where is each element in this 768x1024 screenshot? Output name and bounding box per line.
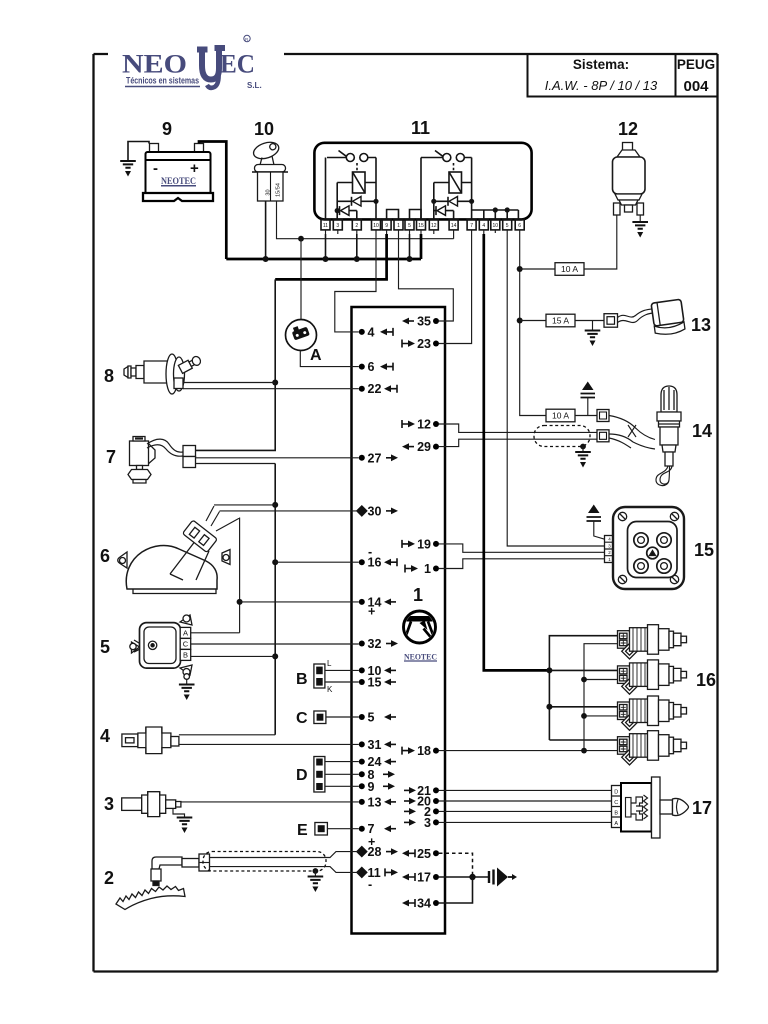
injector I1 xyxy=(618,625,687,659)
comp7 wires xyxy=(196,458,359,464)
pin 5 xyxy=(359,714,365,720)
K2 contact xyxy=(443,154,451,162)
main +12V bus xyxy=(226,234,421,262)
component 13 xyxy=(520,299,711,346)
wire pin18 xyxy=(439,750,584,752)
comp8 wires xyxy=(183,383,359,389)
relay K1 xyxy=(326,151,422,220)
pin 12 xyxy=(433,421,439,427)
cap symbol lambda xyxy=(582,382,594,391)
svg-text:-: - xyxy=(368,878,372,892)
switch collar xyxy=(255,165,286,173)
component 8 pressure regulator xyxy=(104,354,359,394)
svg-text:D: D xyxy=(296,767,308,784)
svg-text:C: C xyxy=(296,710,308,727)
comp3 ground xyxy=(173,808,185,817)
svg-text:1: 1 xyxy=(413,585,423,605)
pin 1 xyxy=(433,566,439,572)
comp5 ground xyxy=(184,674,190,680)
lambda body xyxy=(657,386,681,466)
svg-text:Sistema:: Sistema: xyxy=(573,57,629,72)
t11 drop xyxy=(325,234,327,259)
svg-text:5: 5 xyxy=(408,223,411,229)
svg-text:3: 3 xyxy=(336,223,339,229)
svg-text:29: 29 xyxy=(417,440,431,454)
svg-text:7: 7 xyxy=(106,447,116,467)
pin 8 xyxy=(359,771,365,777)
svg-text:-: - xyxy=(153,160,158,177)
component 2 crank sensor xyxy=(104,852,359,910)
K2 diode row2 xyxy=(434,211,454,219)
svg-text:15: 15 xyxy=(368,676,382,690)
comp2 shield dashed xyxy=(203,852,326,872)
injectors 16 xyxy=(439,234,716,753)
svg-text:10: 10 xyxy=(373,223,379,229)
wire A to pin 6 xyxy=(300,351,359,367)
wire to pin 14 xyxy=(240,601,359,603)
pin 2 xyxy=(433,808,439,814)
coil connector xyxy=(605,536,615,563)
pin 19 xyxy=(433,541,439,547)
svg-text:3: 3 xyxy=(104,794,114,814)
pin34 wire xyxy=(439,877,473,903)
K1 diode row2 xyxy=(337,211,357,219)
ignition coil 15 xyxy=(439,234,714,589)
lambda pigtail xyxy=(656,466,672,486)
svg-text:11: 11 xyxy=(323,223,328,229)
pin 4 xyxy=(359,329,365,335)
connector E xyxy=(297,822,359,839)
svg-text:Técnicos en sistemas: Técnicos en sistemas xyxy=(126,76,199,86)
svg-text:C: C xyxy=(183,640,189,649)
comp7 connector xyxy=(183,446,196,457)
wire 30 xyxy=(265,201,267,259)
diagnostic socket A xyxy=(286,239,359,367)
svg-text:11: 11 xyxy=(411,118,430,138)
comp3 wire to pin 13 xyxy=(181,801,359,803)
battery 9 xyxy=(120,119,226,259)
connector B xyxy=(296,659,359,694)
pin 20 xyxy=(433,798,439,804)
svg-text:4: 4 xyxy=(368,325,375,339)
component 5 MAP sensor xyxy=(100,615,359,700)
K1 output wire xyxy=(368,158,376,220)
pin 9 xyxy=(359,783,365,789)
svg-text:30: 30 xyxy=(368,504,382,518)
fuse 10A lambda xyxy=(546,409,575,422)
svg-text:25: 25 xyxy=(417,847,431,861)
svg-text:NEOTEC: NEOTEC xyxy=(161,176,196,186)
pin 34 xyxy=(433,900,439,906)
t2 drop xyxy=(356,234,358,259)
stepper body xyxy=(621,783,652,832)
pin 35 xyxy=(433,318,439,324)
switch body xyxy=(258,172,284,201)
svg-text:K: K xyxy=(327,685,333,694)
stepper wires xyxy=(439,790,612,822)
svg-text:3: 3 xyxy=(424,816,431,830)
cable13 xyxy=(618,309,656,323)
svg-text:15: 15 xyxy=(694,540,714,560)
svg-text:13: 13 xyxy=(691,315,711,335)
ground xyxy=(120,161,136,177)
svg-text:17: 17 xyxy=(417,871,431,885)
svg-text:15: 15 xyxy=(418,223,424,229)
svg-text:10: 10 xyxy=(493,223,499,229)
K2 diode row1 xyxy=(434,200,472,202)
svg-text:18: 18 xyxy=(417,744,431,758)
pin 7 xyxy=(359,826,365,832)
pin 15 xyxy=(359,679,365,685)
svg-text:12: 12 xyxy=(431,223,437,229)
svg-text:L: L xyxy=(327,659,332,668)
svg-text:NEO: NEO xyxy=(122,50,187,79)
pin 25 xyxy=(433,850,439,856)
K2 coil wires xyxy=(434,183,472,220)
wire pin1 to coil xyxy=(439,559,605,569)
body13 xyxy=(651,299,685,336)
shield lambda xyxy=(534,426,590,447)
terminal stubs xyxy=(326,230,520,234)
comp2 signal wires xyxy=(210,852,359,873)
battery base xyxy=(143,193,213,201)
svg-text:10 A: 10 A xyxy=(552,411,569,421)
svg-text:19: 19 xyxy=(417,537,431,551)
fuel pump 12 xyxy=(520,119,648,275)
pin 22 xyxy=(359,386,365,392)
svg-text:4: 4 xyxy=(482,223,485,229)
ECU NEOTEC emblem xyxy=(403,611,437,662)
border frame xyxy=(94,54,718,972)
component 6 throttle potentiometer xyxy=(100,505,359,633)
pin 14 xyxy=(359,599,365,605)
E wire xyxy=(327,828,358,830)
pin25 dashed wire xyxy=(439,853,473,874)
cap symbol coil xyxy=(588,505,600,514)
comp5 wire B xyxy=(191,655,276,657)
svg-text:5: 5 xyxy=(100,637,110,657)
svg-text:30: 30 xyxy=(266,189,272,195)
svg-text:B: B xyxy=(296,671,308,688)
svg-text:A: A xyxy=(183,629,188,638)
pin 24 xyxy=(359,759,365,765)
connector C xyxy=(296,710,359,727)
wire 15/54 xyxy=(277,201,454,239)
K1 diode row1 xyxy=(337,200,376,202)
svg-text:A: A xyxy=(614,821,618,827)
wire bus to pin 16 xyxy=(275,561,359,563)
fuse 10A pump xyxy=(520,268,555,270)
svg-text:6: 6 xyxy=(100,546,110,566)
comp5 wire C to pin 32 xyxy=(191,643,359,645)
pin 13 xyxy=(359,799,365,805)
svg-text:9: 9 xyxy=(162,119,172,139)
K2 coil xyxy=(449,172,462,193)
K1 bridge t9-t1 xyxy=(387,210,399,220)
K1 contact xyxy=(346,154,354,162)
pin 21 xyxy=(433,787,439,793)
svg-text:12: 12 xyxy=(417,418,431,432)
K2 feed wire xyxy=(421,158,443,220)
svg-text:23: 23 xyxy=(417,337,431,351)
svg-text:10: 10 xyxy=(254,119,274,139)
K2 output bus xyxy=(472,210,519,219)
svg-text:16: 16 xyxy=(696,670,716,690)
B wires xyxy=(325,670,359,682)
svg-text:+: + xyxy=(368,605,375,619)
ECU U1 box xyxy=(352,307,446,934)
svg-text:D: D xyxy=(614,790,618,796)
conn13 xyxy=(604,314,618,328)
injector I2 xyxy=(618,660,687,694)
C wire xyxy=(326,716,359,718)
conn13 ground xyxy=(592,321,594,331)
stepper pin column xyxy=(612,786,622,828)
svg-text:12: 12 xyxy=(618,119,638,139)
svg-text:5: 5 xyxy=(506,223,509,229)
pin 6 xyxy=(359,364,365,370)
idle stepper 17 xyxy=(439,777,712,838)
t5 drop xyxy=(409,234,411,259)
svg-text:35: 35 xyxy=(417,315,431,329)
pin 18 xyxy=(433,748,439,754)
svg-text:C: C xyxy=(614,800,618,806)
toothed wheel xyxy=(116,886,185,910)
svg-text:14: 14 xyxy=(692,421,712,441)
svg-text:32: 32 xyxy=(368,637,382,651)
svg-text:16: 16 xyxy=(368,556,382,570)
injector I3 xyxy=(618,696,687,730)
bridge t5-t15 xyxy=(410,210,422,220)
K1 coil wires xyxy=(337,183,376,220)
pin 10 xyxy=(359,667,365,673)
shield ground xyxy=(580,444,586,450)
svg-text:1: 1 xyxy=(424,562,431,576)
svg-text:28: 28 xyxy=(368,845,382,859)
battery body xyxy=(146,152,211,196)
svg-text:A: A xyxy=(310,347,322,364)
component 3 temp sensor xyxy=(104,792,359,833)
ECU right pins column xyxy=(402,315,439,911)
fuse 15A xyxy=(520,320,546,322)
svg-text:9: 9 xyxy=(385,223,388,229)
comp6 wires xyxy=(206,505,275,521)
svg-text:2: 2 xyxy=(104,868,114,888)
svg-text:14: 14 xyxy=(451,223,457,229)
pin 31 xyxy=(359,741,365,747)
svg-text:5: 5 xyxy=(368,711,375,725)
heater connector xyxy=(597,410,609,422)
svg-text:17: 17 xyxy=(692,798,712,818)
svg-text:6: 6 xyxy=(368,360,375,374)
comp2 shield ground xyxy=(313,868,319,874)
relay terminal row xyxy=(321,219,524,234)
svg-text:NEOTEC: NEOTEC xyxy=(404,652,437,662)
svg-text:10 A: 10 A xyxy=(561,264,578,274)
K2 output wire xyxy=(465,158,472,220)
pin 29 xyxy=(433,444,439,450)
injector bus1 xyxy=(549,636,617,740)
K1 feed wire xyxy=(326,158,347,220)
svg-text:004: 004 xyxy=(683,78,709,95)
svg-text:B: B xyxy=(183,651,188,660)
injector I4 xyxy=(618,731,687,765)
ignition switch 10 xyxy=(251,119,453,259)
pin 27 xyxy=(359,455,365,461)
battery posts xyxy=(150,144,159,153)
svg-text:15/54: 15/54 xyxy=(276,183,282,197)
pin17 wire + junction xyxy=(439,876,489,878)
injector feed thick xyxy=(484,234,550,670)
svg-text:22: 22 xyxy=(368,382,382,396)
relay module 11 box xyxy=(314,118,531,219)
pin 32 xyxy=(359,641,365,647)
title block xyxy=(528,54,718,97)
battery positive wire xyxy=(199,142,226,260)
key shaft xyxy=(260,156,274,165)
sensor supply feed from t9 xyxy=(196,234,387,450)
svg-text:4: 4 xyxy=(100,726,110,746)
pin 3 xyxy=(433,819,439,825)
lambda sensor 14 xyxy=(439,382,712,486)
svg-text:27: 27 xyxy=(368,451,382,465)
svg-text:8: 8 xyxy=(104,366,114,386)
fused supply rail from t6 xyxy=(517,234,546,416)
svg-text:34: 34 xyxy=(417,897,431,911)
svg-text:+: + xyxy=(190,160,199,177)
wire t1 to pin 35 xyxy=(399,234,454,321)
comp7 cable xyxy=(147,439,183,456)
pair connector xyxy=(597,430,609,442)
NEOTEC company logo xyxy=(122,35,262,90)
K1 coil xyxy=(353,172,366,193)
svg-text:PEUG: PEUG xyxy=(677,57,715,72)
wire t10 to pin 4 xyxy=(335,234,376,332)
svg-text:1: 1 xyxy=(397,223,400,229)
injector bus2 xyxy=(584,644,618,751)
stepper shaft xyxy=(660,800,673,814)
ECU left pins column xyxy=(356,325,398,891)
stepper cone xyxy=(673,798,689,815)
svg-text:B: B xyxy=(614,811,618,817)
coil body xyxy=(613,507,684,589)
svg-text:I.A.W. - 8P / 10 / 13: I.A.W. - 8P / 10 / 13 xyxy=(545,78,658,93)
pump ground xyxy=(639,215,641,221)
lambda pair from ECU xyxy=(439,424,597,447)
pin 11 xyxy=(356,866,368,878)
D wires xyxy=(325,762,359,787)
wire pin19 to coil xyxy=(439,544,605,552)
comp2 connector xyxy=(199,854,210,871)
component 4 sensor xyxy=(100,726,359,754)
svg-text:7: 7 xyxy=(470,223,473,229)
component 7 purge valve xyxy=(106,437,359,735)
coil feed wire from t5 xyxy=(507,234,604,546)
pin 30 xyxy=(356,505,368,517)
lambda cables xyxy=(609,416,655,450)
svg-text:6: 6 xyxy=(518,223,521,229)
svg-text:13: 13 xyxy=(368,795,382,809)
off-page marker xyxy=(489,868,517,887)
comp5 wire A xyxy=(191,632,240,634)
battery ground wire xyxy=(128,142,149,161)
svg-text:9: 9 xyxy=(368,780,375,794)
wire t7 to pin 23 xyxy=(439,234,472,344)
pin 23 xyxy=(433,341,439,347)
key head xyxy=(251,139,280,161)
svg-text:2: 2 xyxy=(355,223,358,229)
stepper flange xyxy=(652,777,661,838)
svg-text:E: E xyxy=(297,822,308,839)
connector D xyxy=(296,757,359,793)
svg-text:15 A: 15 A xyxy=(552,316,569,326)
relay K2 xyxy=(421,151,518,220)
pin 17 xyxy=(433,874,439,880)
svg-text:EC: EC xyxy=(220,50,255,79)
svg-text:31: 31 xyxy=(368,738,382,752)
comp4 wires xyxy=(179,735,359,745)
svg-text:S.L.: S.L. xyxy=(247,81,262,90)
